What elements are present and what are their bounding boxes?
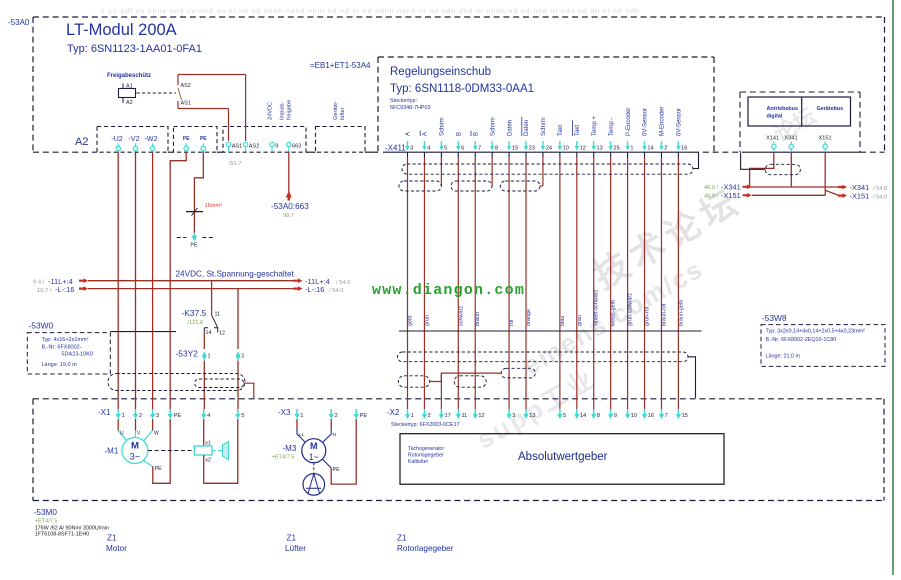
- svg-text:+ET4/7.5: +ET4/7.5: [272, 455, 295, 461]
- svg-text:-W2: -W2: [144, 134, 157, 143]
- svg-text:gelb: gelb: [408, 316, 414, 326]
- svg-text:lüfter: lüfter: [340, 107, 346, 120]
- svg-text:Takt: Takt: [575, 125, 581, 136]
- svg-text:U: U: [120, 431, 124, 437]
- svg-text:11: 11: [461, 413, 467, 419]
- svg-text:6FC9348-7HP03: 6FC9348-7HP03: [390, 105, 430, 111]
- svg-text:PE: PE: [155, 466, 163, 472]
- svg-text:grau: grau: [577, 315, 583, 326]
- svg-text:4: 4: [207, 413, 210, 419]
- svg-text:X141: X141: [766, 136, 779, 142]
- svg-text:-53M0: -53M0: [34, 508, 58, 517]
- svg-text:A1: A1: [126, 84, 133, 90]
- svg-text:3: 3: [410, 146, 413, 152]
- svg-text:13: 13: [529, 413, 535, 419]
- svg-text:Typ: 6SN1118-0DM33-0AA1: Typ: 6SN1118-0DM33-0AA1: [390, 83, 534, 95]
- svg-text:Z1: Z1: [397, 534, 407, 543]
- svg-text:17: 17: [445, 413, 451, 419]
- svg-text:grün-rot: grün-rot: [645, 306, 651, 326]
- svg-text:-X2: -X2: [387, 408, 400, 417]
- svg-text:Daten: Daten: [524, 120, 530, 136]
- svg-text:PE: PE: [190, 243, 198, 249]
- svg-text:3: 3: [512, 413, 515, 419]
- svg-text:-53W8: -53W8: [762, 313, 787, 323]
- svg-text:2: 2: [428, 413, 431, 419]
- svg-text:3~: 3~: [129, 452, 140, 463]
- svg-text:Kaltleiter: Kaltleiter: [408, 459, 428, 465]
- svg-text:Temp +: Temp +: [592, 116, 598, 136]
- svg-text:freigabe: freigabe: [287, 100, 293, 120]
- svg-text:Länge: 21,0 m: Länge: 21,0 m: [766, 354, 801, 360]
- svg-text:9.4 /: 9.4 /: [33, 280, 45, 286]
- svg-text:PE: PE: [174, 413, 182, 419]
- svg-text:Tachogenerator: Tachogenerator: [408, 446, 444, 452]
- svg-text:Schirm: Schirm: [541, 117, 547, 136]
- svg-text:1FT6108-8SF71-1EH0: 1FT6108-8SF71-1EH0: [35, 532, 90, 538]
- svg-text:Rotorlagegeber: Rotorlagegeber: [408, 453, 444, 459]
- svg-text:www.diangon.com: www.diangon.com: [372, 282, 525, 299]
- svg-text:/ 54.0: / 54.0: [329, 288, 344, 294]
- svg-text:Steckertyp:: Steckertyp:: [390, 98, 417, 104]
- svg-text:Z1: Z1: [107, 534, 117, 543]
- svg-text:0V-Sensor: 0V-Sensor: [643, 108, 649, 136]
- svg-text:7: 7: [478, 146, 481, 152]
- svg-text:Schirm: Schirm: [490, 117, 496, 136]
- svg-text:-53Y2: -53Y2: [176, 349, 199, 359]
- svg-text:LT-Modul 200A: LT-Modul 200A: [66, 21, 177, 39]
- svg-text:P-Encoder: P-Encoder: [626, 108, 632, 136]
- svg-text:braun: braun: [475, 312, 481, 326]
- svg-text:-L-:16: -L-:16: [305, 285, 324, 294]
- svg-text:braun-gelb: braun-gelb: [678, 300, 684, 326]
- svg-text:Rotorlagegeber: Rotorlagegeber: [397, 544, 454, 553]
- svg-text:1: 1: [630, 146, 633, 152]
- svg-text:Antriebsbus: Antriebsbus: [767, 106, 798, 112]
- svg-text:X151: X151: [819, 136, 832, 142]
- svg-text:15: 15: [682, 413, 688, 419]
- svg-text:PE: PE: [183, 136, 190, 142]
- svg-text:10.7 /: 10.7 /: [37, 288, 52, 294]
- svg-text:/121.6: /121.6: [188, 320, 204, 326]
- svg-text:-X1: -X1: [98, 408, 111, 417]
- svg-text:1: 1: [300, 413, 303, 419]
- svg-text:rot: rot: [509, 319, 515, 326]
- svg-text:25: 25: [613, 146, 619, 152]
- svg-text:Typ: 6SN1123-1AA01-0FA1: Typ: 6SN1123-1AA01-0FA1: [67, 43, 202, 55]
- svg-text:6: 6: [461, 146, 464, 152]
- svg-text:A: A: [423, 132, 429, 136]
- svg-text:-L-:16: -L-:16: [55, 285, 74, 294]
- svg-text:Absolutwertgeber: Absolutwertgeber: [518, 451, 608, 463]
- svg-text:grün: grün: [424, 315, 430, 326]
- svg-text:Takt: Takt: [558, 125, 564, 136]
- svg-text:/91.7: /91.7: [229, 161, 241, 167]
- svg-text:A2: A2: [126, 100, 133, 106]
- svg-text:-X3: -X3: [278, 408, 291, 417]
- svg-text:-V2: -V2: [128, 134, 139, 143]
- svg-text:1: 1: [411, 413, 414, 419]
- svg-text:Gerätebus: Gerätebus: [817, 106, 844, 112]
- svg-text:-53A0:663: -53A0:663: [271, 202, 309, 211]
- svg-text:PE: PE: [360, 413, 368, 419]
- svg-text:1~: 1~: [309, 452, 319, 462]
- svg-text:7: 7: [665, 413, 668, 419]
- svg-text:weiss-gelb: weiss-gelb: [611, 300, 617, 327]
- svg-text:grün-schwarz: grün-schwarz: [628, 293, 634, 326]
- svg-text:Lüfter: Lüfter: [285, 544, 306, 553]
- svg-text:Typ: 4x16+2x1mm²: Typ: 4x16+2x1mm²: [42, 337, 89, 343]
- svg-text:Regelungseinschub: Regelungseinschub: [390, 66, 491, 78]
- svg-text:98.7: 98.7: [283, 213, 294, 219]
- svg-text:M: M: [310, 441, 318, 451]
- svg-text:2: 2: [241, 354, 244, 360]
- svg-text:3: 3: [156, 413, 159, 419]
- svg-text:5DA23-10K0: 5DA23-10K0: [62, 352, 94, 358]
- svg-text:-X411: -X411: [385, 144, 406, 153]
- svg-text:+ET4/7.5: +ET4/7.5: [35, 519, 58, 525]
- svg-text:/ 54.8: / 54.8: [873, 186, 887, 192]
- svg-text:M: M: [131, 441, 139, 452]
- svg-text:AS2: AS2: [249, 144, 260, 150]
- svg-text:-M3: -M3: [283, 444, 297, 453]
- svg-text:/ 54.0: / 54.0: [336, 280, 351, 286]
- svg-text:M-Encoder: M-Encoder: [660, 107, 666, 136]
- svg-text:B.-Nr: 6FX8002-2EQ10-1C80: B.-Nr: 6FX8002-2EQ10-1C80: [766, 337, 837, 343]
- svg-text:12: 12: [219, 331, 225, 337]
- svg-text:10: 10: [563, 146, 569, 152]
- svg-text:8: 8: [495, 146, 498, 152]
- svg-text:Z1: Z1: [287, 534, 297, 543]
- svg-text:16: 16: [681, 146, 687, 152]
- svg-text:14: 14: [647, 146, 653, 152]
- svg-text:2: 2: [664, 146, 667, 152]
- svg-text:2: 2: [139, 413, 142, 419]
- svg-text:Daten: Daten: [507, 120, 513, 136]
- svg-text:15: 15: [512, 146, 518, 152]
- svg-text:blau: blau: [560, 316, 566, 326]
- svg-text:AS1: AS1: [181, 101, 191, 107]
- svg-text:663: 663: [292, 144, 301, 150]
- svg-text:-X151: -X151: [721, 191, 741, 200]
- svg-text:0V-Sensor: 0V-Sensor: [677, 108, 683, 136]
- svg-text:=EB1+ET1-53A4: =EB1+ET1-53A4: [310, 61, 371, 70]
- svg-text:B: B: [456, 132, 462, 136]
- svg-text:46.9 /: 46.9 /: [704, 194, 718, 200]
- svg-text:Länge: 19,0 m: Länge: 19,0 m: [42, 362, 78, 368]
- svg-text:Motor: Motor: [106, 544, 127, 553]
- svg-text:W: W: [154, 431, 159, 437]
- svg-text:-53W0: -53W0: [29, 321, 54, 331]
- svg-text:L1: L1: [299, 432, 305, 438]
- svg-text:14: 14: [580, 413, 586, 419]
- svg-text:5: 5: [563, 413, 566, 419]
- svg-text:5: 5: [241, 413, 244, 419]
- svg-text:schwarz: schwarz: [458, 306, 464, 326]
- svg-text:A: A: [406, 132, 412, 136]
- svg-text:11: 11: [215, 312, 221, 318]
- svg-text:PE: PE: [333, 467, 341, 473]
- svg-text:B: B: [473, 132, 479, 136]
- svg-text:24VDC: 24VDC: [268, 102, 274, 120]
- svg-text:14: 14: [206, 330, 212, 336]
- svg-text:46.9 /: 46.9 /: [704, 185, 718, 191]
- svg-text:24VDC, St.Spannung-geschaltet: 24VDC, St.Spannung-geschaltet: [176, 270, 295, 279]
- svg-text:braun-rot: braun-rot: [661, 303, 667, 326]
- svg-text:12: 12: [580, 146, 586, 152]
- svg-text:9: 9: [614, 413, 617, 419]
- svg-text:violett-schwarz: violett-schwarz: [594, 289, 600, 326]
- svg-text:-X151: -X151: [850, 192, 870, 201]
- svg-text:1: 1: [122, 413, 125, 419]
- svg-text:orange: orange: [526, 309, 532, 326]
- svg-text:Steckertyp: 6FX2003-0CE17: Steckertyp: 6FX2003-0CE17: [391, 422, 460, 428]
- svg-text:4: 4: [427, 146, 430, 152]
- svg-text:digital: digital: [767, 114, 783, 120]
- svg-text:9: 9: [275, 144, 278, 150]
- svg-text:-U2: -U2: [111, 134, 123, 143]
- svg-text:5: 5: [444, 146, 447, 152]
- svg-text:Impuls-: Impuls-: [280, 102, 286, 120]
- svg-text:B.-Nr: 6FX8002-: B.-Nr: 6FX8002-: [42, 345, 82, 351]
- svg-text:N: N: [333, 432, 337, 438]
- svg-text:-K37.5: -K37.5: [182, 308, 207, 318]
- svg-text:Temp -: Temp -: [609, 118, 615, 136]
- svg-text:PE: PE: [200, 136, 207, 142]
- svg-text:AS2: AS2: [181, 83, 191, 89]
- svg-text:24: 24: [546, 146, 552, 152]
- svg-text:Freigabeschütz: Freigabeschütz: [107, 73, 151, 79]
- svg-text:16: 16: [648, 413, 654, 419]
- svg-text:13: 13: [597, 146, 603, 152]
- svg-text:16mm²: 16mm²: [205, 203, 223, 209]
- svg-text:Schirm: Schirm: [440, 117, 446, 136]
- svg-text:1: 1: [208, 354, 211, 360]
- svg-text:10: 10: [631, 413, 637, 419]
- svg-text:23: 23: [529, 146, 535, 152]
- svg-text:Geräte-: Geräte-: [333, 101, 339, 120]
- svg-text:x1: x1: [205, 441, 211, 447]
- svg-text:Typ: 3x2x0,14+4x0,14+2x0,5+4x0: Typ: 3x2x0,14+4x0,14+2x0,5+4x0,23mm²: [766, 329, 866, 335]
- svg-text:A2: A2: [75, 136, 88, 148]
- svg-text:..1 co.pdf co.ohne und co.nhd.: ..1 co.pdf co.ohne und co.nhd.nn.nl nd n…: [95, 8, 640, 15]
- svg-text:/ 54.0: / 54.0: [873, 195, 887, 201]
- svg-text:8: 8: [597, 413, 600, 419]
- svg-text:12: 12: [478, 413, 484, 419]
- svg-text:AS1: AS1: [232, 144, 243, 150]
- svg-text:2: 2: [335, 413, 338, 419]
- svg-text:x2: x2: [205, 458, 211, 464]
- svg-text:-M1: -M1: [105, 447, 119, 456]
- svg-text:-53A0: -53A0: [8, 18, 30, 27]
- svg-text:X341: X341: [785, 136, 798, 142]
